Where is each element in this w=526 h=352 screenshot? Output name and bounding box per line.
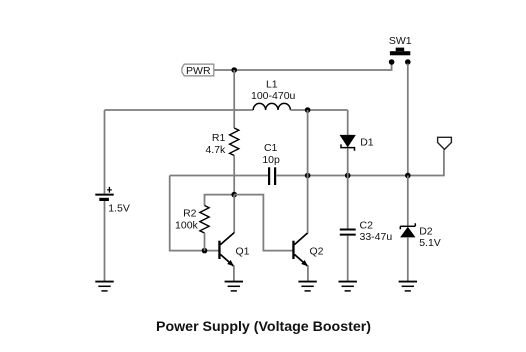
inductor L1 — [253, 103, 290, 110]
switch SW1 left contact dot — [389, 59, 395, 65]
ground at D2 — [399, 282, 417, 291]
wire C2 bottom lead to ground — [347, 236, 349, 282]
capacitor C2 — [340, 230, 356, 235]
ground at battery — [95, 282, 113, 291]
wire battery bottom lead to ground — [104, 201, 106, 282]
net flag PWR — [182, 64, 214, 77]
resistor R2 — [200, 206, 209, 234]
diode D2 zener — [400, 223, 415, 237]
svg-text:R2: R2 — [183, 208, 197, 220]
wire Q2 emitter to ground — [307, 266, 309, 282]
wire PWR to SW1 y=70 — [214, 64, 392, 71]
svg-text:SW1: SW1 — [389, 35, 412, 47]
junction dot mid rail at Q2 collector column — [305, 173, 311, 179]
svg-text:L1: L1 — [266, 78, 278, 90]
wire Q1 emitter to ground — [233, 266, 235, 282]
wire D2 anode to ground — [407, 237, 409, 282]
wire Q2 collector column — [307, 110, 309, 233]
svg-text:D2: D2 — [419, 225, 433, 237]
svg-text:R1: R1 — [212, 132, 226, 144]
wire R1 bottom lead to Q1 collector node — [233, 156, 235, 195]
wire D1 cathode to mid rail — [347, 148, 349, 175]
junction dot PWR node x=234.5 y=70 — [231, 67, 237, 73]
capacitor C1 — [269, 167, 275, 185]
svg-text:C1: C1 — [264, 142, 278, 154]
switch SW1 pushbutton symbol — [390, 48, 410, 56]
svg-text:D1: D1 — [360, 137, 374, 149]
svg-text:Power Supply (Voltage Booster): Power Supply (Voltage Booster) — [156, 319, 371, 335]
connector output terminal — [438, 137, 452, 149]
wire R2 bottom lead — [204, 233, 206, 251]
svg-text:100k: 100k — [175, 220, 199, 232]
junction dot at L1 output and Q2 collector column — [305, 107, 311, 113]
svg-text:1.5V: 1.5V — [108, 202, 130, 214]
wire SW1 column mid rail down to D2 cathode — [407, 176, 409, 227]
battery BT1 1.5V — [95, 195, 113, 200]
ground at Q1 emitter — [225, 282, 243, 291]
wire mid rail y=175.5 left segment to C1 — [170, 175, 268, 177]
svg-text:4.7k: 4.7k — [205, 144, 226, 156]
wire R1 top lead from PWR node — [233, 70, 235, 128]
junction dot mid rail at SW1/D2 column — [405, 173, 411, 179]
wire C2 top lead — [347, 176, 349, 229]
wire left branch from mid rail down to Q1 base — [170, 176, 219, 251]
wire SW1 right contact down to mid rail — [407, 64, 409, 176]
svg-text:5.1V: 5.1V — [419, 237, 441, 249]
wire Q1 collector node to Q2 base — [234, 195, 292, 251]
resistor R1 — [230, 128, 239, 156]
wire D1 top lead from top rail — [347, 110, 349, 135]
transistor Q1 — [218, 233, 234, 267]
ground at C2 — [339, 282, 357, 291]
junction dot R2 bottom at Q1 base wire — [202, 248, 208, 254]
wire top rail y=110 from L1 to D1 corner — [290, 109, 347, 111]
svg-text:10p: 10p — [262, 154, 280, 166]
svg-text:100-470u: 100-470u — [251, 90, 296, 102]
junction dot R1/R2/Q1-collector node — [231, 192, 237, 198]
wire Q1 collector lead — [233, 195, 235, 233]
diode D1 schottky — [340, 135, 355, 151]
wire R2 top lead corner — [205, 195, 235, 206]
transistor Q2 — [292, 233, 308, 267]
label battery polarity + — [107, 187, 112, 193]
wire top rail y=110 from battery to L1 — [105, 109, 254, 111]
svg-text:PWR: PWR — [186, 65, 211, 77]
junction dot mid rail at D1/C2 column — [345, 173, 351, 179]
svg-text:Q2: Q2 — [310, 245, 324, 257]
svg-text:Q1: Q1 — [236, 245, 250, 257]
wire battery top lead — [104, 110, 106, 194]
ground at Q2 emitter — [298, 282, 316, 291]
svg-text:C2: C2 — [360, 220, 374, 232]
wire mid rail y=175.5 right segment from C1 to antenna corner — [276, 150, 444, 176]
switch SW1 right contact dot — [405, 59, 411, 65]
svg-text:33-47u: 33-47u — [360, 231, 393, 243]
